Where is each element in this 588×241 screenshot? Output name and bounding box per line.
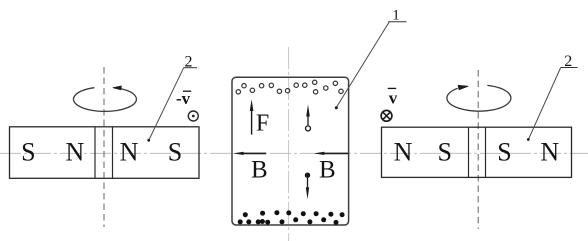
rising ion arrow shaft (307, 116, 309, 126)
field arrow B right head (314, 152, 325, 155)
left rotation arrow ellipse arc (73, 88, 136, 112)
svg-text:N: N (394, 138, 413, 167)
overbar of right v (388, 87, 396, 89)
svg-text:B: B (319, 157, 336, 184)
label 2 underline (right) (561, 67, 578, 69)
rising ion circle (306, 126, 311, 131)
right rotation arrowhead (458, 85, 468, 90)
right magnet partition line B (485, 127, 487, 177)
svg-text:S: S (21, 138, 35, 167)
svg-text:N: N (66, 138, 85, 167)
left magnet partition line A (94, 127, 96, 179)
force arrow F shaft (251, 110, 253, 135)
sinking ion arrow head (306, 187, 309, 199)
leader dot (right 2) (527, 138, 530, 141)
field arrow B left head (233, 152, 244, 155)
rising ion arrow head (306, 105, 310, 117)
svg-text:S: S (497, 138, 511, 167)
sinking ion arrow shaft (307, 178, 309, 188)
sinking ion dot (305, 173, 310, 178)
out-of-page symbol (circle-dot) (188, 111, 198, 121)
left magnet outline (10, 127, 200, 179)
right magnet partition line A (468, 127, 470, 177)
electron gas: top small open circles (236, 80, 343, 94)
leader dot (label 1) (335, 106, 338, 109)
svg-text:v: v (389, 89, 398, 108)
overbar of left v (183, 90, 191, 92)
right rotation arrow ellipse arc (447, 85, 511, 111)
label 2 underline (left) (184, 67, 198, 69)
leader line for label 2 (right) (529, 68, 561, 140)
field arrow B left shaft (243, 152, 266, 154)
vessel 1 outline (232, 77, 349, 225)
svg-text:1: 1 (392, 8, 400, 24)
field arrow B right shaft (324, 152, 348, 154)
svg-text:B: B (251, 157, 268, 184)
label 1 underline (388, 21, 406, 23)
right rotation axis (dashed) (477, 70, 479, 229)
horizontal centerline (0, 152, 588, 154)
force arrow F head (250, 99, 254, 111)
svg-text:N: N (540, 138, 559, 167)
heavy ions: bottom filled dots (238, 210, 345, 225)
leader dot (left 2) (147, 139, 150, 142)
svg-text:S: S (168, 138, 182, 167)
left magnet partition line B (112, 127, 114, 179)
into-page symbol (circle-cross) (381, 110, 392, 121)
right magnet outline (382, 127, 572, 177)
svg-text:N: N (120, 138, 139, 167)
svg-text:S: S (437, 138, 451, 167)
leader line for label 2 (left) (149, 68, 184, 140)
vessel vertical centerline (288, 47, 290, 241)
left rotation arrowhead (113, 86, 122, 90)
left rotation axis (dashed) (103, 67, 105, 227)
svg-text:F: F (256, 111, 269, 137)
leader line for label 1 (336, 22, 389, 108)
